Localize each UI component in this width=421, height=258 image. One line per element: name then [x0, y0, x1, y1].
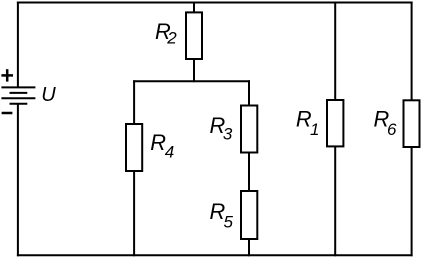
- wire R4 branch vertical: [133, 81, 135, 255]
- battery U plates: [1, 87, 35, 103]
- svg-text:4: 4: [165, 143, 174, 162]
- resistor R4 body: [126, 124, 142, 171]
- wire left border lower segment from battery: [17, 104, 19, 255]
- wire R2 branch vertical: [193, 3, 195, 82]
- battery minus sign: [2, 112, 13, 115]
- label R6: [374, 107, 398, 139]
- svg-text:U: U: [41, 84, 56, 106]
- wire R1 branch vertical: [334, 3, 336, 256]
- svg-text:1: 1: [310, 120, 319, 139]
- label R2: [155, 19, 177, 48]
- battery plus sign: [1, 69, 13, 81]
- label R1: [296, 107, 320, 139]
- wire left border upper segment to battery: [17, 3, 19, 87]
- resistor R3 body: [241, 106, 257, 153]
- wire top border: [18, 2, 412, 4]
- svg-text:3: 3: [223, 125, 233, 144]
- label R3: [210, 113, 233, 144]
- svg-text:5: 5: [224, 213, 234, 232]
- resistor R6 body: [404, 100, 420, 147]
- label R5: [210, 199, 234, 232]
- svg-text:6: 6: [387, 120, 397, 139]
- resistor R5 body: [241, 191, 257, 239]
- resistor R1 body: [327, 100, 343, 146]
- label R4: [150, 130, 174, 162]
- wire R3-R5 branch vertical: [248, 81, 250, 255]
- wire right border: [411, 3, 413, 256]
- resistor R2 body: [186, 12, 202, 59]
- wire middle horizontal node: [134, 80, 249, 82]
- svg-text:2: 2: [166, 29, 177, 48]
- wire bottom border: [18, 254, 412, 256]
- label U: [41, 84, 56, 106]
